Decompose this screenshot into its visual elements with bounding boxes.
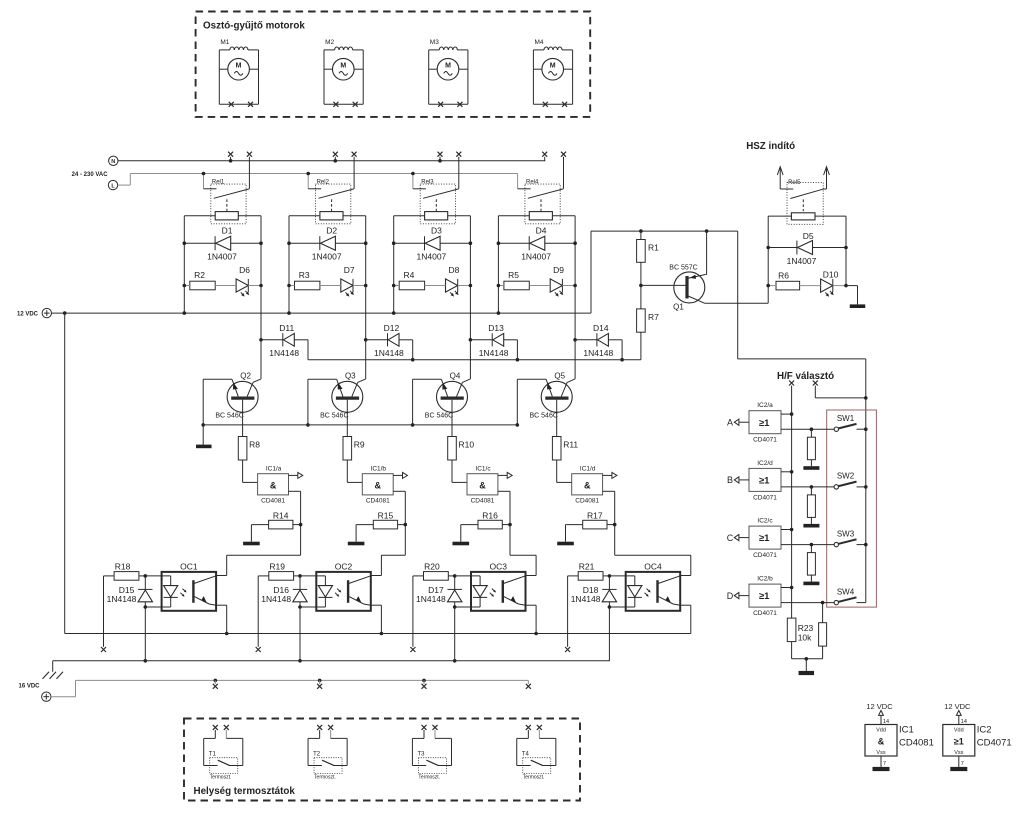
svg-text:R18: R18: [115, 562, 131, 572]
motor M1: [219, 39, 258, 107]
svg-text:12 VDC: 12 VDC: [17, 312, 39, 318]
wire pulldown 3: [810, 545, 812, 553]
wire OC3 LED return: [455, 606, 480, 608]
wire D14 anode drop: [621, 340, 623, 360]
diode D4 1N4007: [521, 226, 551, 262]
svg-text:CD4081: CD4081: [471, 498, 495, 505]
connector x mark on rail C: [319, 680, 321, 684]
svg-text:D: D: [727, 591, 734, 601]
wire L line: [130, 173, 517, 175]
wire SW4 pulldown top: [822, 603, 824, 623]
svg-text:1N4007: 1N4007: [521, 251, 551, 261]
svg-text:R16: R16: [482, 511, 498, 521]
svg-text:M: M: [445, 62, 451, 69]
selector enclosure (SW1-SW4): [827, 410, 877, 607]
svg-text:D8: D8: [448, 265, 459, 275]
svg-text:BC 557C: BC 557C: [669, 264, 697, 271]
diode D1 1N4007: [207, 226, 237, 262]
wire Q2 collector: [260, 340, 262, 379]
wire IC2/d to common bus: [781, 471, 792, 473]
diode D12 1N4148: [374, 323, 404, 358]
svg-text:A: A: [727, 417, 733, 427]
wire IC1/b output to opto link: [393, 490, 405, 492]
junction D12 cathode node: [364, 338, 368, 342]
terminal N: [109, 156, 118, 165]
junction OC1 emitter on rail A: [225, 632, 229, 636]
svg-text:M3: M3: [430, 39, 439, 46]
wire OC4 LED return: [609, 606, 634, 608]
svg-text:M4: M4: [535, 39, 544, 46]
wire IC2/c to common bus: [781, 529, 792, 531]
wire R5 to D9: [529, 285, 550, 287]
wire rail C: [76, 679, 529, 681]
thermostat T2: [308, 725, 347, 781]
svg-text:1N4148: 1N4148: [107, 594, 137, 604]
wire R14 right: [293, 524, 301, 526]
wire cell 1 left vertical: [183, 216, 185, 313]
svg-text:OC3: OC3: [490, 562, 508, 572]
OR gate IC2/d CD4071: [749, 460, 781, 502]
source 12 VDC: [17, 308, 52, 317]
junction R1 top: [639, 229, 643, 233]
ground (R15): [348, 542, 365, 546]
wire D13 cathode: [470, 339, 492, 341]
svg-text:&: &: [270, 480, 277, 490]
wire R1 bottom to base node: [640, 262, 642, 309]
wire D16 column to rail B: [299, 607, 301, 661]
connector pair to motor M1 (x marks): [228, 152, 252, 157]
svg-text:IC2/d: IC2/d: [757, 460, 773, 467]
wire D4 cathode side: [545, 242, 575, 244]
diode D11 1N4148: [269, 323, 299, 358]
relay Rel3: [413, 179, 459, 223]
resistor R20: [424, 562, 449, 581]
junction Q1 emitter top: [705, 229, 709, 233]
wire rail B: [53, 660, 610, 662]
junction 12V rail cell 1: [183, 311, 187, 315]
source 16 VDC: [18, 683, 51, 701]
wire Q3 emitter: [308, 378, 337, 380]
wire ground stub: [805, 659, 807, 671]
wire relay contact drop cell 3: [458, 157, 460, 189]
svg-text:IC1: IC1: [899, 725, 914, 736]
wire link IC1/d to OC4: [615, 554, 691, 556]
resistor (SW4 pulldown): [819, 623, 827, 646]
wire R1 top: [640, 231, 642, 239]
svg-text:R15: R15: [378, 511, 394, 521]
junction D10 right: [844, 284, 848, 288]
wire N tap cell 2: [334, 157, 336, 161]
wire cell 1 right vertical: [260, 216, 262, 340]
connector x mark HF bus: [789, 381, 794, 386]
relay Rel1: [204, 179, 250, 223]
resistor R16: [478, 511, 502, 529]
junction rail C tap 1: [214, 679, 218, 683]
wire left drop to connector: [567, 576, 569, 647]
wire HF feed drop: [737, 231, 739, 359]
wire R18 left: [104, 575, 115, 577]
OR gate IC2/a CD4071: [749, 402, 781, 444]
junction D13 cathode node: [469, 338, 473, 342]
svg-text:H/F választó: H/F választó: [777, 371, 834, 382]
junction OC2 emitter on rail A: [380, 632, 384, 636]
svg-text:IC1/d: IC1/d: [580, 466, 596, 473]
svg-text:7: 7: [883, 761, 886, 767]
svg-text:1N4007: 1N4007: [312, 251, 342, 261]
svg-text:≥1: ≥1: [759, 476, 770, 487]
junction R6 left: [766, 284, 770, 288]
wire coil right cell 4: [552, 215, 575, 217]
OR gate IC2/b CD4071: [749, 576, 781, 618]
wire D16 anode top: [299, 576, 301, 590]
svg-text:CD4071: CD4071: [753, 494, 777, 501]
wire R10 to gate input: [451, 460, 453, 482]
junction D3 right: [469, 241, 473, 245]
wire D3 cathode side: [440, 242, 470, 244]
wire R17 left to ground: [566, 524, 583, 526]
wire coil right cell 3: [448, 215, 471, 217]
connector x mark: [410, 647, 415, 652]
svg-text:D12: D12: [384, 323, 400, 333]
wire Q1 emitter supply line: [591, 230, 738, 232]
wire link IC1/c to OC3: [510, 554, 536, 556]
junction D18 bottom: [608, 605, 612, 609]
wire D2 cathode side: [335, 242, 365, 244]
wire R19 to D16: [294, 575, 300, 577]
wire R14 left to ground: [251, 524, 268, 526]
wire Q2 base: [242, 400, 244, 437]
svg-text:R7: R7: [648, 312, 659, 322]
svg-text:R5: R5: [508, 270, 519, 280]
wire R11 to gate input: [556, 460, 558, 482]
junction D2 right: [364, 241, 368, 245]
wire emitter rail: [203, 424, 517, 426]
svg-text:Q5: Q5: [554, 371, 565, 380]
svg-text:1N4007: 1N4007: [207, 251, 237, 261]
wire Q1 collector: [705, 302, 769, 304]
svg-text:T4: T4: [522, 752, 530, 758]
thermostat T3: [412, 725, 451, 781]
svg-text:Q2: Q2: [240, 371, 251, 380]
wire R16 right: [502, 524, 510, 526]
junction common bus 2: [790, 470, 794, 474]
wire OC4 collector out: [680, 575, 691, 577]
wire cell 4 left vertical: [497, 216, 499, 313]
wire IC2/c to SW3: [781, 544, 834, 546]
LED D9: [550, 265, 564, 296]
wire D15 column to rail B: [144, 607, 146, 661]
wire Q2 emitter: [203, 378, 232, 380]
junction D17 bottom: [453, 605, 457, 609]
wire R23 bottom: [791, 642, 793, 659]
resistor R11: [552, 437, 578, 461]
junction on N line cell 2: [334, 159, 338, 163]
resistor R7: [637, 309, 660, 332]
junction D1 right: [259, 241, 263, 245]
wire cell 3 left vertical: [393, 216, 395, 313]
svg-text:R6: R6: [778, 271, 789, 281]
junction Q4 emitter on rail: [411, 423, 415, 427]
svg-text:Osztó-gyűjtő motorok: Osztó-gyűjtő motorok: [203, 21, 305, 32]
switch SW3: [834, 529, 866, 547]
junction D9 right: [573, 284, 577, 288]
resistor R1: [637, 240, 660, 263]
wire R16 left to ground: [461, 524, 478, 526]
junction D4 left: [497, 241, 501, 245]
resistor R9: [343, 437, 365, 461]
wire D15 anode top: [144, 576, 146, 590]
svg-text:IC2/b: IC2/b: [757, 576, 773, 583]
svg-text:Termoszt.: Termoszt.: [523, 775, 545, 781]
junction diode bus cell 2: [411, 358, 415, 362]
svg-text:Vdd: Vdd: [876, 728, 886, 734]
junction on rail B: [453, 659, 457, 663]
wire R2 to D6: [215, 285, 236, 287]
svg-text:Vdd: Vdd: [954, 728, 964, 734]
wire D12 anode drop: [412, 340, 414, 360]
svg-text:OC4: OC4: [644, 562, 662, 572]
wire OC4 LED entry: [609, 575, 634, 577]
wire cell 2 left vertical: [288, 216, 290, 313]
svg-text:D10: D10: [823, 270, 839, 280]
junction 12V rail cell 4: [497, 311, 501, 315]
wire D14 anode: [608, 339, 622, 341]
connector pair to motor M4 (x marks): [542, 152, 566, 157]
junction R4 left: [392, 284, 396, 288]
svg-text:1N4148: 1N4148: [269, 348, 299, 358]
svg-text:R3: R3: [299, 270, 310, 280]
wire D12 anode: [399, 339, 413, 341]
chassis ground (16 VDC): [43, 672, 64, 679]
thermostat T4: [517, 725, 556, 781]
wire left drop to connector: [257, 576, 259, 647]
junction on L line cell 3: [411, 172, 415, 176]
wire R4 left: [394, 285, 400, 287]
relay Rel4: [518, 179, 564, 223]
optocoupler OC3: [471, 562, 526, 611]
wire D5 left: [768, 247, 797, 249]
wire D14 cathode: [575, 339, 597, 341]
wire IC2/a to SW1: [781, 428, 834, 430]
wire coil left cell 4: [498, 215, 529, 217]
junction rail C tap 2: [318, 679, 322, 683]
wire R6 left: [768, 285, 776, 287]
junction D5 right: [844, 246, 848, 250]
svg-text:24 - 230 VAC: 24 - 230 VAC: [72, 172, 109, 178]
wire 12 VDC rail: [52, 312, 592, 314]
svg-text:N: N: [111, 159, 115, 165]
svg-text:D3: D3: [431, 226, 442, 236]
wire R2 left: [184, 285, 190, 287]
junction D8 right: [469, 284, 473, 288]
svg-text:OC1: OC1: [180, 562, 198, 572]
wire Q5 collector: [574, 340, 576, 379]
junction D17 top: [453, 574, 457, 578]
connector x mark HF feed: [813, 381, 818, 386]
LED D7: [341, 265, 355, 296]
wire D17 bottom: [454, 602, 456, 607]
wire D6 right: [248, 285, 261, 287]
svg-text:&: &: [878, 737, 885, 747]
junction 12V rail cell 2: [287, 311, 291, 315]
transistor Q1 BC557C: [669, 264, 705, 311]
svg-text:Q3: Q3: [345, 371, 356, 380]
wire Rel5 right vertical: [845, 216, 847, 286]
svg-text:10k: 10k: [798, 632, 812, 642]
wire D5 right: [813, 247, 847, 249]
svg-text:CD4071: CD4071: [977, 738, 1012, 749]
diode D15 1N4148: [107, 585, 153, 604]
optocoupler OC2: [316, 562, 371, 611]
junction SW3 on feed bus: [864, 543, 868, 547]
wire IC2/d to SW2: [781, 486, 834, 488]
svg-text:IC1/c: IC1/c: [475, 466, 491, 473]
wire coil right cell 2: [343, 215, 366, 217]
wire R5 left: [498, 285, 504, 287]
LED D10: [821, 270, 839, 297]
wire R21 to D18: [603, 575, 609, 577]
input C: [727, 533, 749, 543]
output arrow IC1/a: [289, 472, 303, 478]
wire Q5 base: [556, 400, 558, 437]
wire cell 4 right vertical: [574, 216, 576, 340]
junction Q1 base node: [639, 284, 643, 288]
svg-text:R19: R19: [269, 562, 285, 572]
svg-text:IC2/c: IC2/c: [757, 518, 773, 525]
wire R18 to D15: [139, 575, 145, 577]
diode D16 1N4148: [261, 585, 307, 604]
wire Rel5 coil right: [815, 215, 846, 217]
AND gate IC1/c CD4081: [467, 466, 498, 505]
junction common bus 4: [790, 586, 794, 590]
diode D18 1N4148: [571, 585, 617, 604]
OR gate IC2/c CD4071: [749, 518, 781, 560]
svg-text:1N4148: 1N4148: [416, 594, 446, 604]
junction HF feed: [864, 396, 868, 400]
svg-text:&: &: [479, 480, 486, 490]
svg-text:D14: D14: [593, 323, 609, 333]
resistor R15: [373, 511, 397, 529]
wire coil left cell 3: [394, 215, 425, 217]
wire IC1/c output to opto link: [498, 490, 510, 492]
diode D17 1N4148: [416, 585, 462, 604]
svg-text:IC2: IC2: [977, 725, 992, 736]
transistor Q4 BC546C: [425, 371, 471, 419]
wire D11 anode: [294, 339, 308, 341]
wire D16 bottom: [299, 602, 301, 607]
thermostat T1: [204, 725, 243, 781]
svg-text:SW2: SW2: [837, 472, 855, 481]
ground (R14): [243, 542, 260, 546]
junction on L line cell 1: [202, 172, 206, 176]
motor M3: [429, 39, 468, 107]
optocoupler OC1: [162, 562, 217, 611]
junction SW4 line resistor: [821, 601, 825, 605]
wire Q1 emitter: [705, 274, 706, 276]
svg-text:M1: M1: [220, 39, 229, 46]
wire L feed: [118, 174, 518, 186]
resistor R2: [190, 270, 215, 290]
junction D3 left: [392, 241, 396, 245]
wire Q4 collector: [469, 340, 471, 379]
svg-text:T2: T2: [313, 752, 321, 758]
junction Q5 emitter on rail: [516, 423, 520, 427]
transistor Q2 BC546C: [215, 371, 261, 419]
svg-text:1N4148: 1N4148: [583, 348, 613, 358]
connector x mark: [101, 647, 106, 652]
svg-text:&: &: [584, 480, 591, 490]
svg-text:CD4071: CD4071: [753, 437, 777, 444]
wire R6 to D10: [800, 285, 821, 287]
junction Q2 emitter on rail: [201, 423, 205, 427]
svg-text:R1: R1: [648, 242, 659, 252]
svg-text:Rel5: Rel5: [788, 180, 801, 186]
svg-text:M2: M2: [325, 39, 334, 46]
svg-text:R14: R14: [273, 511, 289, 521]
wire D11 cathode: [261, 339, 283, 341]
svg-text:7: 7: [961, 761, 964, 767]
wire pulldown 1: [810, 429, 812, 437]
wire coil left cell 2: [289, 215, 320, 217]
connector pair to motor M3 (x marks): [438, 152, 462, 157]
resistor R21: [578, 562, 603, 581]
wire L tap cell 2: [307, 174, 309, 189]
resistor R23 10k: [787, 618, 813, 642]
svg-text:Termoszt.: Termoszt.: [314, 775, 336, 781]
junction on N line cell 1: [229, 159, 233, 163]
svg-text:D1: D1: [222, 226, 233, 236]
wire OC4 emitter out: [680, 604, 691, 606]
junction D15 top: [144, 574, 148, 578]
wire IC1/a output to opto link: [289, 490, 301, 492]
wire D1 anode side: [184, 242, 215, 244]
junction R16 node: [508, 523, 512, 527]
wire relay contact drop cell 2: [353, 157, 355, 189]
svg-text:R2: R2: [194, 270, 205, 280]
svg-text:1N4148: 1N4148: [261, 594, 291, 604]
motor M2: [324, 39, 363, 107]
resistor R17: [583, 511, 607, 529]
junction R17 node: [613, 523, 617, 527]
wire IC1/d output to opto link: [603, 490, 615, 492]
svg-text:T1: T1: [209, 752, 217, 758]
junction on N line cell 3: [438, 159, 442, 163]
wire IC2/b to common bus: [781, 587, 792, 589]
svg-text:R10: R10: [459, 440, 475, 450]
svg-text:IC1/a: IC1/a: [266, 466, 282, 473]
wire R3 left: [289, 285, 295, 287]
svg-text:Vss: Vss: [876, 750, 885, 756]
junction D16 top: [298, 574, 302, 578]
relay Rel2: [308, 179, 354, 223]
wire 16 VDC feed: [51, 680, 528, 696]
AND gate IC1/b CD4081: [362, 466, 393, 505]
svg-text:R20: R20: [424, 562, 440, 572]
svg-text:D2: D2: [326, 226, 337, 236]
ground (Rel5): [850, 304, 866, 308]
wire R20 to D17: [448, 575, 454, 577]
resistor R3: [295, 270, 320, 290]
input D: [727, 591, 749, 601]
wire HF common bus: [791, 414, 793, 618]
resistor R6: [776, 271, 800, 290]
wire link IC1/b to OC2: [381, 554, 405, 556]
wire drop 12V to rail A: [64, 313, 66, 633]
junction 12V to opto drop: [63, 311, 67, 315]
wire OC1 LED entry: [145, 575, 170, 577]
svg-text:&: &: [375, 480, 382, 490]
junction pulldown 2: [810, 485, 814, 489]
